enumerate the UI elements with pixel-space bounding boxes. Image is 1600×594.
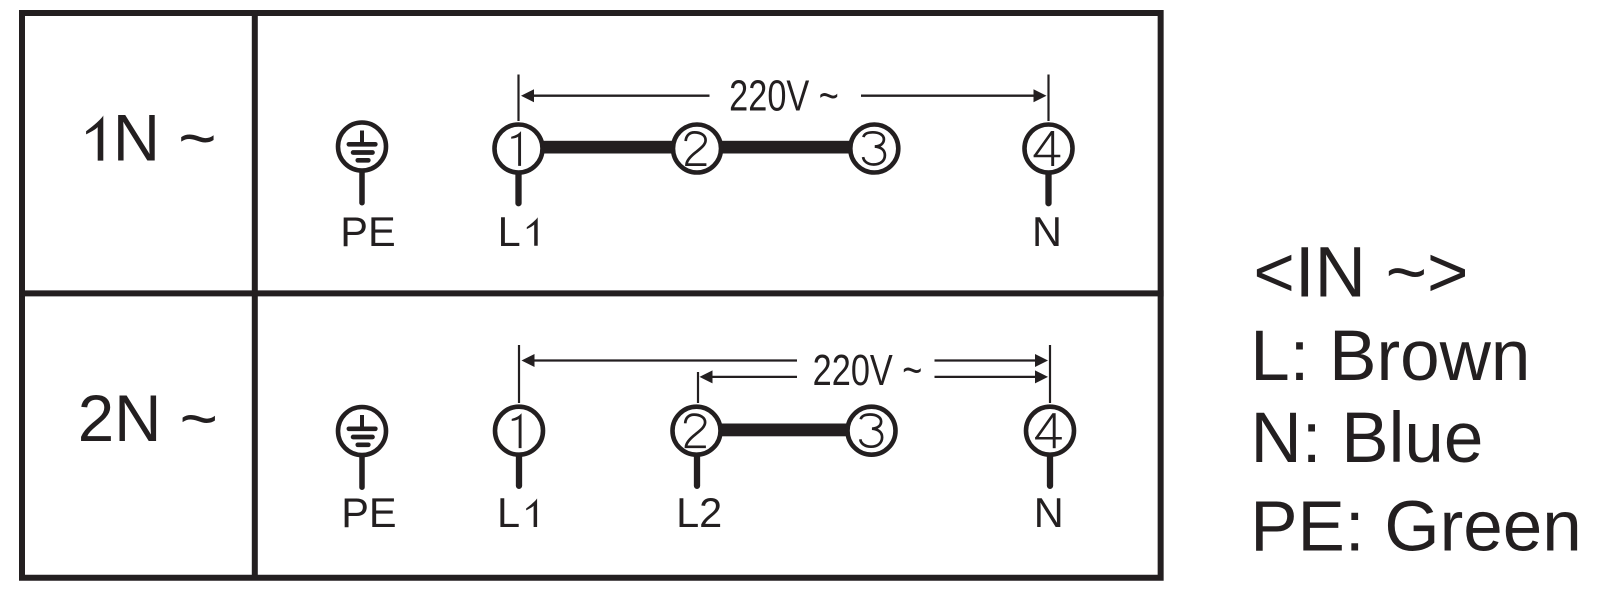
svg-text:N ~: N ~ <box>113 102 217 175</box>
svg-text:L2: L2 <box>676 489 722 536</box>
svg-text:PE: PE <box>340 208 395 255</box>
svg-text:N: N <box>1034 489 1064 536</box>
svg-text:220V ~: 220V ~ <box>729 72 839 121</box>
svg-text:220V ~: 220V ~ <box>813 346 923 395</box>
svg-text:L: L <box>497 489 520 536</box>
svg-text:PE: PE <box>341 489 396 536</box>
svg-text:L: L <box>498 208 521 255</box>
svg-text:2N ~: 2N ~ <box>78 382 218 455</box>
svg-text:L: Brown: L: Brown <box>1250 317 1530 396</box>
svg-text:PE: Green: PE: Green <box>1250 487 1582 566</box>
svg-text:N: N <box>1032 208 1062 255</box>
svg-text:<IN ~>: <IN ~> <box>1253 233 1468 312</box>
svg-text:N: Blue: N: Blue <box>1251 399 1484 478</box>
